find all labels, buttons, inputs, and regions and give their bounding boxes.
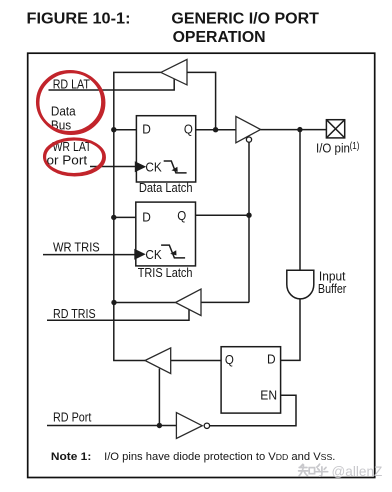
svg-text:GENERIC I/O PORT: GENERIC I/O PORT (171, 11, 319, 28)
svg-text:Q: Q (184, 121, 193, 136)
node: junction data bus / TRIS latch D (111, 215, 116, 220)
watermark zhihu @allenZ (299, 464, 383, 479)
inverter U9 (points right) (176, 413, 202, 439)
svg-text:CK: CK (145, 247, 162, 262)
svg-text:OPERATION: OPERATION (173, 29, 266, 46)
annotation red ellipse around RD LAT and Data Bus (37, 71, 104, 133)
wire: RD TRIS to U5 enable (47, 309, 189, 320)
input buffer U6 (287, 270, 314, 299)
I/O pin pad symbol (326, 120, 344, 138)
TRIS latch falling edge symbol (161, 245, 185, 258)
node: junction I/O pin / input buffer (297, 127, 302, 132)
svg-text:Buffer: Buffer (318, 281, 347, 296)
svg-text:EN: EN (260, 387, 277, 402)
svg-text:I/O pin: I/O pin (316, 140, 350, 155)
node: junction TRIS Q / enable line (246, 213, 251, 218)
wire: data bus vertical (113, 72, 115, 360)
wire: RD LAT signal to buffer enable (49, 78, 175, 90)
wire: RD Port signal (47, 425, 176, 427)
svg-text:D: D (142, 210, 151, 225)
wire: data bus to data latch D (114, 129, 137, 131)
inverter output bubble (204, 423, 209, 428)
svg-text:D: D (267, 351, 276, 366)
wire: TRIS latch Q to driver enable (196, 142, 250, 303)
svg-text:RD Port: RD Port (53, 410, 92, 425)
wire: inverter output to input latch EN (210, 395, 296, 426)
input latch U7 box (221, 347, 281, 413)
svg-text:FIGURE 10-1:: FIGURE 10-1: (27, 11, 131, 28)
data latch falling edge symbol (164, 161, 187, 173)
svg-text:WR TRIS: WR TRIS (53, 240, 100, 255)
wire: output driver to I/O pin (261, 129, 327, 131)
node: junction data bus / data latch D (111, 127, 116, 132)
data latch CK input arrowhead (135, 161, 146, 172)
node: junction data latch Q / U1 input (213, 127, 218, 132)
svg-text:D: D (142, 121, 151, 136)
op-amp U3 output driver buffer (points right) (236, 116, 261, 142)
data latch U2 box (136, 116, 195, 182)
frame border (28, 53, 375, 477)
node: junction data bus / RD TRIS buffer output (111, 300, 116, 305)
wire: U8 enable from RD Port (158, 369, 160, 426)
op-amp U8 tri-state buffer RD Port (points left) (145, 348, 171, 374)
annotation red ellipse around WR LAT or Port (44, 139, 104, 176)
wire: data latch Q to output driver (196, 129, 236, 131)
output driver enable bubble (246, 137, 251, 142)
wire: RD TRIS buffer output to data bus (114, 302, 176, 304)
TRIS latch CK input arrowhead (134, 249, 145, 260)
svg-text:Q: Q (177, 208, 186, 223)
TRIS latch U4 box (136, 202, 196, 266)
svg-text:@allenZ: @allenZ (332, 464, 383, 479)
wire: input buffer output to latch D (281, 299, 300, 361)
wire: WR TRIS to TRIS latch CK (43, 254, 135, 256)
svg-text:CK: CK (145, 159, 162, 174)
node: junction RD Port / U8 enable (157, 423, 162, 428)
wire: data bus to TRIS latch D (114, 216, 136, 218)
wire: U1 input from data latch Q (187, 72, 216, 129)
figure title line 1 (27, 11, 320, 46)
wire: input latch Q to U8 input (171, 360, 221, 362)
svg-text:Data Latch: Data Latch (139, 180, 193, 195)
svg-text:(1): (1) (350, 141, 360, 152)
wire: I/O pin to input buffer (299, 130, 301, 271)
wire: WR LAT to data latch CK (90, 166, 135, 168)
wire: RD LAT buffer output to data bus (113, 71, 161, 73)
op-amp U5 tri-state buffer RD TRIS (points left) (176, 289, 202, 316)
svg-text:I/O pins have diode protection: I/O pins have diode protection to VDD an… (104, 451, 335, 463)
wire: U8 output to data bus (113, 360, 145, 362)
svg-text:RD LAT: RD LAT (53, 77, 90, 92)
op-amp U1 tri-state buffer RD LAT (points left) (161, 59, 187, 85)
svg-text:Q: Q (225, 352, 234, 367)
svg-text:or Port: or Port (47, 152, 88, 167)
svg-text:Note 1:: Note 1: (51, 451, 91, 463)
svg-text:RD TRIS: RD TRIS (53, 306, 96, 321)
svg-text:TRIS Latch: TRIS Latch (138, 265, 193, 280)
note 1 text (51, 451, 335, 463)
svg-text:Data: Data (51, 103, 76, 118)
